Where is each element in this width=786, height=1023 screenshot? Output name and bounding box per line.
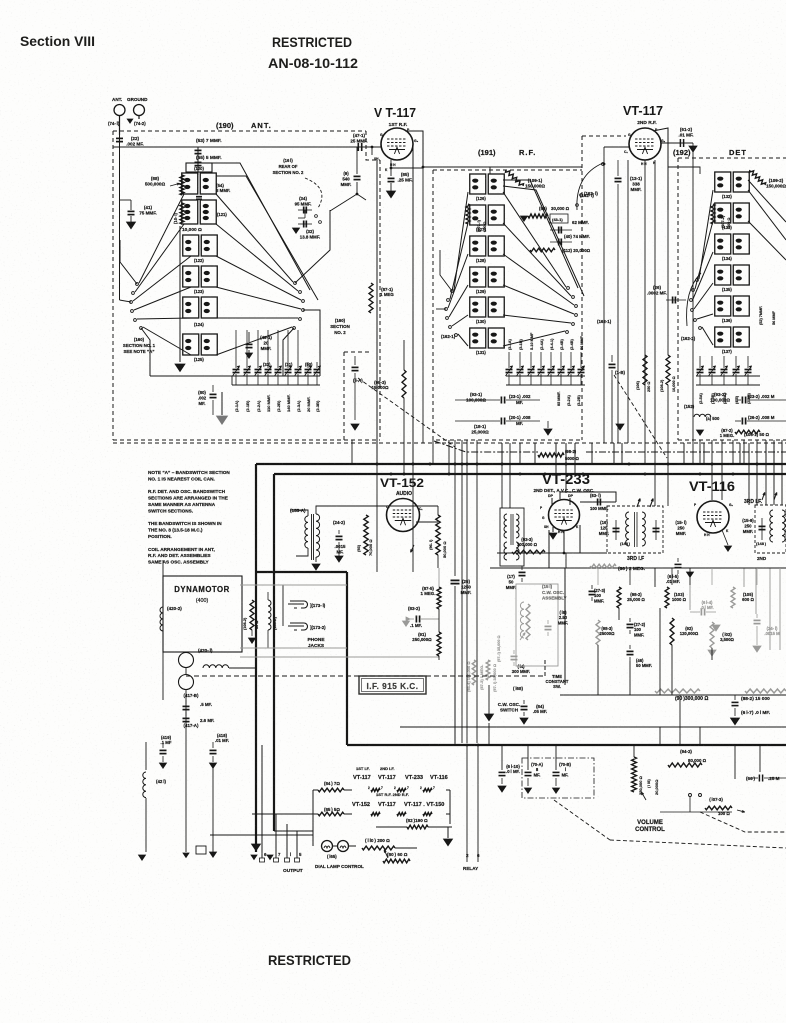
trimmer capacitor (2-4B)	[560, 352, 562, 368]
wire audio plate	[416, 521, 438, 523]
trimmer capacitor (7-5B)	[711, 356, 713, 368]
wire VT-233 cathode long drop	[564, 568, 566, 685]
wire screen drop x=377	[371, 147, 373, 155]
coil (129)	[470, 267, 486, 287]
capacitor (84) .05 MF	[523, 700, 525, 704]
ground arrows near strip	[251, 855, 257, 860]
ground under (418)	[210, 763, 217, 768]
open arrow at audio grid	[411, 545, 414, 552]
resistor (108-2) 10,000 ohm	[666, 355, 670, 385]
trimmer arrow grey	[520, 633, 525, 640]
wire bandswitch fan right	[216, 194, 293, 282]
potentiometer (118) volume	[632, 757, 637, 792]
coil (122)	[183, 235, 199, 256]
trimmer capacitor (2-2A)	[257, 362, 259, 368]
wire fan left feeders	[120, 300, 132, 302]
wire RF trimmer bus	[506, 375, 585, 377]
wire RF fan left	[454, 192, 468, 290]
resistor (92) 120,000 ohm	[670, 618, 674, 645]
capacitor (54) 3 MMF	[196, 196, 202, 198]
coil (131)	[470, 328, 486, 348]
wire switch dots bottom right	[689, 794, 692, 797]
capacitor (49-1) 20 MMF	[248, 332, 250, 342]
capacitor (61-7) .01 MF	[734, 695, 736, 700]
coil (a) 500	[694, 414, 711, 417]
switch arc det	[687, 273, 701, 326]
enclosure IF can left of VT-233	[500, 508, 524, 566]
trimmer capacitor (4-4-1)	[550, 352, 552, 368]
enclosure (191) RF dashed box	[433, 170, 582, 440]
ground arrow VT-233 left	[552, 527, 554, 532]
trimmer capacitor (2-5A)	[699, 356, 701, 368]
trimmer capacitor 20 MMF.	[307, 362, 309, 368]
trimmer capacitor 5-10 MMF	[530, 352, 532, 368]
trimmer capacitor (3-1B)	[519, 352, 521, 368]
ground under (32)	[293, 228, 300, 233]
terminal strip 6 7 1 5	[261, 850, 263, 858]
grey verticals	[597, 568, 599, 585]
wire from (9) to switch	[330, 194, 357, 211]
ground RF bottom	[547, 421, 549, 428]
capacitor (53) 7 MMF	[197, 147, 199, 175]
capacitor (14) 300 MMF	[513, 650, 515, 654]
capacitor (22) .002 MF	[119, 135, 121, 147]
trimmer capacitor (2-2B)	[277, 362, 279, 368]
resistor (108-1) 50 ohm	[735, 430, 760, 434]
ground under (1-A)	[351, 424, 359, 430]
wire thick vertical left 2	[273, 474, 275, 831]
wire thick vertical left	[255, 464, 257, 852]
resistor (93) 70,000 ohm	[364, 515, 368, 555]
enclosure DYNAMOTOR box	[163, 576, 242, 652]
capacitor (46) 50 MMF	[629, 645, 631, 649]
tuning arrows above 3rd IF can	[637, 499, 640, 507]
resistor (98-2) 5000 ohm	[538, 453, 564, 457]
junction dots on buses	[376, 463, 379, 466]
coil (127)	[470, 205, 486, 225]
trimmer capacitor (2-4A)	[540, 352, 542, 368]
resistor (87-1) 1 MEG	[369, 283, 373, 313]
wire filament row2	[313, 813, 318, 815]
resistor (98-3) 25000 grey	[596, 620, 600, 645]
grey ground arrow (83-2)	[406, 617, 410, 621]
capacitor (1-B)	[611, 355, 613, 362]
wire grey return	[240, 656, 439, 658]
capacitor (1-A)	[354, 356, 356, 365]
wire grid return x=413	[412, 147, 414, 464]
resistor (105) 600 ohm	[731, 587, 735, 608]
wire long drops from boxes to buses	[351, 440, 353, 464]
trimmer capacitor 56 MMF	[580, 352, 582, 368]
wire plate tube2	[653, 128, 668, 210]
label box I.F. 915 K.C.	[359, 676, 426, 694]
coil (123)	[183, 266, 199, 287]
capacitor (7) 50 MMF	[521, 560, 523, 568]
wire antenna input bus	[113, 146, 381, 148]
wire mid line y=727	[400, 726, 786, 728]
resistor grey on bus 1	[655, 689, 700, 693]
ground det	[697, 430, 704, 435]
wire dashed time constant line	[186, 675, 545, 677]
dial lamp 2	[338, 841, 349, 852]
capacitor (32) 13.8 MMF	[303, 221, 305, 228]
coil (134)	[715, 234, 731, 254]
wire det feed	[668, 167, 700, 174]
coil (128)	[470, 236, 486, 256]
small box left bottom	[196, 846, 206, 854]
resistor (106) 250 ohm	[643, 355, 647, 385]
ground under thick left bus	[252, 844, 261, 851]
coil (137)	[715, 327, 731, 347]
arrow wiper on (110)	[384, 850, 388, 858]
resistor (87-5) 1 MEG	[437, 587, 441, 609]
capacitor (41) 75 MMF	[120, 199, 132, 201]
wire ganged tuning dashed diagonal	[358, 378, 455, 447]
coil (125)	[183, 334, 199, 355]
wire cathode of tube1	[390, 160, 392, 176]
capacitor (17) 50 MMF	[521, 566, 523, 570]
wire bus y=695	[560, 694, 786, 696]
ground under (61-10)	[498, 786, 506, 792]
enclosure (190) ANT dashed box	[113, 130, 366, 132]
coil (135)	[715, 265, 731, 285]
resistor (108-2) 50 ohm vertical	[250, 600, 254, 630]
switch arc (162-1) under tube2	[577, 163, 603, 210]
wire trimmer feeds from fan	[235, 330, 237, 362]
wire curve pointer from (161)	[305, 178, 322, 208]
capacitor (55) 5 MMF	[195, 161, 202, 163]
wire bottom row2 extension	[252, 813, 313, 815]
wire lamp circuit line	[274, 830, 313, 832]
wire extra mid verticals	[501, 443, 503, 464]
ground under (155-A)	[312, 564, 320, 570]
wire VT-233 connections	[563, 530, 565, 553]
capacitor (43-1) 62 MMF	[550, 214, 568, 223]
node ground terminal (74-2)	[134, 105, 145, 116]
wire audio block outline thick	[256, 571, 347, 573]
wire RF fan feeders left	[436, 308, 446, 310]
wire jack wiring	[282, 585, 284, 626]
capacitor (23-2) .002 MF	[735, 399, 741, 401]
ground arrow dark mid	[485, 714, 494, 721]
wire fan right feeders to trimmers	[283, 328, 294, 376]
ground arrow mid RF bottom	[616, 424, 624, 430]
ground under 50 ohm	[251, 630, 253, 636]
trimmer capacitor (2-1B)	[246, 362, 248, 368]
wire filament row1	[313, 789, 318, 791]
node switch contacts near (34)	[315, 215, 318, 218]
wire bus into audio	[330, 505, 438, 507]
coil (126)	[470, 174, 486, 194]
trimmer capacitor (4-5)	[735, 356, 737, 368]
ground after (61-2)	[692, 143, 694, 146]
wire RF fan right	[503, 192, 566, 287]
capacitor (25) 1250 MMF	[454, 568, 456, 576]
phone jack (173-1)	[288, 603, 304, 605]
ground left of strip	[210, 852, 217, 857]
trimmer capacitor (2-1A)	[235, 362, 237, 368]
resistor (10-1) 10,000 ohm	[180, 203, 184, 224]
resistor (107-1) 100 ohm	[466, 204, 470, 224]
wire left side drop	[119, 147, 121, 300]
resistor (103) 1000 ohm	[665, 587, 669, 608]
wire bus y=553	[497, 552, 607, 554]
resistor grey on bus 2	[745, 689, 786, 693]
wire dashed diagonals bottom	[554, 800, 610, 840]
wire thick bus B+ upper	[256, 463, 786, 465]
wire bandswitch fan left	[139, 194, 184, 283]
capacitor (13-1) 338 MMF	[617, 160, 619, 176]
trimmer capacitor (2-4B)	[570, 352, 572, 368]
resistor (96-1) 50,000 ohm	[436, 515, 440, 555]
wire verticals to bottom	[454, 660, 456, 745]
capacitor (70-B) 1 MF	[553, 771, 560, 773]
enclosure (192) DET dashed box	[677, 158, 679, 440]
trimmer capacitor (2-5A)	[723, 356, 725, 368]
ground under (89)	[521, 216, 528, 221]
ground below coil string	[179, 226, 181, 362]
dial lamp 1 (165)	[322, 841, 333, 852]
capacitor (80) .002 MF	[212, 385, 214, 392]
trimmer capacitor (2-5B)	[747, 356, 749, 368]
capacitor (85) .25 MF	[388, 177, 395, 179]
resistor grey (93-4)	[472, 660, 476, 685]
ground under (61-7)	[731, 718, 740, 725]
wire (120) link box	[186, 163, 212, 172]
wire det fan left	[699, 190, 713, 279]
det trimmer bank	[696, 375, 760, 377]
coil (124)	[183, 297, 199, 318]
coil 3rd IF primary	[626, 512, 629, 546]
wire left drops	[162, 763, 164, 766]
capacitor (24-1) .0015 grey	[756, 614, 758, 618]
capacitor (61-10) .01 MF	[499, 771, 506, 773]
ground under (85)	[387, 191, 396, 198]
wire plate line into RF coil	[489, 167, 491, 174]
wire audio output drop	[437, 506, 439, 515]
wire plate of tube1	[405, 131, 582, 167]
coil (130)	[470, 297, 486, 317]
capacitor (26-2) .008 MF	[735, 420, 741, 422]
coil (420-1)	[203, 665, 229, 668]
capacitor (70-A) 8 MF	[525, 771, 532, 773]
scan noise overlay	[0, 0, 1, 1]
grey verticals right mid	[689, 568, 691, 610]
resistor (98-2) 25000 vertical	[617, 587, 621, 608]
capacitor (27-3) 100 MMF	[591, 585, 593, 589]
wire grid line tube2	[604, 146, 629, 148]
coil (421)	[145, 742, 147, 770]
enclosure (1-A) dashed sub-box	[343, 352, 345, 440]
ground left bottom	[139, 855, 146, 860]
wire dynamotor leads	[185, 667, 187, 675]
enclosure 4th IF can right	[755, 505, 786, 553]
resistor (112) 20,000 ohm	[530, 248, 555, 252]
trimmer capacitor (2-3B)	[316, 362, 318, 368]
wire thick bus B+ lower	[274, 473, 786, 475]
capacitor (27-2) 100 MMF	[629, 618, 631, 622]
wire long diagonals RF	[503, 180, 578, 288]
wire long diagonals from coil top to switch	[212, 163, 310, 290]
ground big below trimmers	[221, 392, 223, 415]
wire cathode drop tube2	[644, 160, 646, 443]
node antenna terminal (74-1)	[114, 105, 125, 116]
resistor (93-3)	[512, 550, 545, 554]
phone jack (173-2)	[288, 625, 304, 627]
ground under (49-1)	[246, 353, 253, 358]
wire ganged dashed diagonal 2	[614, 375, 667, 458]
coil (155-B)	[268, 600, 271, 630]
wire drops to terminal strip	[261, 745, 263, 850]
coil CW osc grey	[520, 602, 524, 638]
motor armature circles	[179, 653, 194, 668]
trimmer capacitor 110 MMF.	[267, 362, 269, 368]
enclosure 3rd IF can dashed	[607, 506, 663, 553]
wire trimmer bus	[232, 375, 320, 377]
ground VT-116 cathode	[722, 530, 728, 545]
ground under (84)	[520, 718, 528, 724]
wire lamp link	[333, 845, 337, 847]
wire dashed bus below boxes	[113, 442, 786, 444]
resistor (107-2) 100 ohm	[711, 204, 715, 224]
coil (133)	[715, 203, 731, 223]
resistor (109-2) 150,000 ohm diagonal	[749, 170, 765, 185]
ground under (419)	[160, 763, 167, 768]
capacitor (14) 300 MMF label	[509, 648, 511, 652]
coil (132)	[715, 172, 731, 192]
ground filament chain	[447, 827, 449, 838]
wire chain verticals	[312, 790, 314, 814]
capacitor (61-5) .01 MF	[677, 558, 679, 562]
capacitor (20-1) .008 MF	[455, 420, 500, 422]
enclosure CW osc assembly grey	[516, 584, 558, 666]
wire bottom returns	[150, 375, 232, 377]
capacitor (23-1) .002 MF	[455, 399, 500, 401]
resistor (86) 2 MEG grey	[590, 564, 616, 568]
trimmer capacitor (3-1A)	[508, 352, 510, 368]
wire det diagonals right	[748, 190, 786, 240]
resistor (88) 500,000 ohm	[180, 175, 184, 195]
wire bus y=568	[490, 567, 786, 569]
trimmer capacitor (2-3A)	[297, 362, 299, 368]
coil (120)	[182, 173, 198, 194]
capacitor 2.6 MF	[183, 717, 190, 719]
wire dash-dot line with (98-2)	[434, 441, 538, 452]
resistor (109-1) 150,000 ohm diagonal	[505, 170, 523, 186]
trimmer capacitor 140 MMF.	[287, 362, 289, 368]
enclosure electrolytic dash-dot	[522, 758, 594, 798]
resistor (102) 3500 grey	[710, 622, 714, 648]
ground under (24-2)	[335, 556, 343, 562]
coil (136)	[715, 296, 731, 316]
ground under (41)	[127, 222, 136, 229]
